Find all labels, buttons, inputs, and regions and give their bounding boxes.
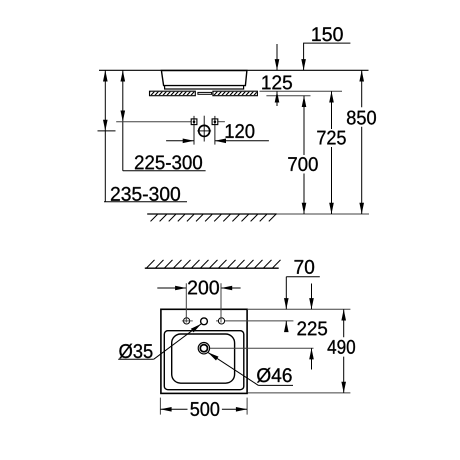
Ø35 leader arrow (191, 324, 201, 333)
floor line extension (277, 213, 369, 215)
label 500 (191, 402, 220, 416)
wall/rim reference line (99, 69, 369, 71)
supply level reference line (116, 121, 191, 123)
dimension 120 left arrow (183, 139, 194, 144)
dimension 200 left line (157, 287, 186, 289)
dimension 725 arrow down (329, 203, 334, 214)
dimension 235-300 vertical line (104, 70, 106, 201)
label Ø35 (119, 344, 152, 359)
dimension 725 line (331, 91, 333, 214)
washbasin foot (165, 86, 244, 89)
dimension 70 lower line (285, 321, 287, 332)
label 120 (226, 124, 255, 138)
label 235-300 underline (104, 201, 187, 203)
label 725 (317, 131, 345, 145)
dimension 500 right extension line (246, 398, 248, 415)
dimension 500 left arrow (160, 407, 171, 412)
dimension 490 arrow down (341, 382, 346, 393)
right supply connection symbol (212, 116, 218, 145)
Ø35 leader line (154, 324, 201, 359)
dimension 725 arrow up (329, 91, 334, 102)
dimension 700 arrow up (302, 96, 307, 107)
label 700 (288, 157, 317, 171)
label 70 underline (286, 276, 320, 278)
label Ø46 underline (258, 384, 293, 386)
left supply connection symbol (191, 116, 197, 145)
dimension 850 arrow down (359, 203, 364, 214)
rear edge extension line (247, 308, 350, 310)
wall hatching (147, 260, 281, 268)
drain centre extension line (210, 347, 314, 349)
Ø46 leader arrow (208, 352, 219, 360)
dimension 225 lower arrow (309, 348, 314, 359)
dimension 225 upper arrow (309, 298, 314, 309)
dimension 235-300 arrow up (103, 70, 108, 81)
basin outer edge (plan view) (161, 309, 247, 393)
countertop top surface extension line (260, 90, 343, 92)
dimension 490 arrow up (341, 309, 346, 320)
countertop bottom surface extension line (266, 95, 310, 97)
dimension 120 left line (166, 140, 194, 142)
label 490 (328, 340, 356, 354)
floor line (147, 213, 277, 215)
floor hatching (151, 214, 276, 221)
dimension 850 arrow up (359, 70, 364, 81)
left optional tap hole (182, 318, 193, 324)
label 200 (188, 280, 219, 294)
dimension 70 lower arrow (284, 321, 289, 332)
wall line (plan view) (145, 267, 279, 269)
dimension 225 upper line (311, 284, 313, 310)
drain hole (plan view) (198, 343, 209, 354)
dimension 150 leader (304, 43, 351, 70)
drain outlet (side view) (197, 116, 211, 142)
dimension 125 lower arrow (275, 91, 280, 102)
dimension 200 right arrow (221, 286, 232, 291)
dimension 490 line (343, 309, 345, 393)
label 235-300 (111, 187, 180, 201)
dimension 150 arrow (301, 59, 306, 70)
middle tap hole (201, 318, 208, 325)
label Ø46 (257, 368, 292, 383)
dimension 125 upper line (276, 44, 278, 70)
label 225-300 underline (123, 170, 206, 172)
dimension 200 left extension line (185, 283, 187, 322)
dimension 70 upper arrow (284, 298, 289, 309)
label 225-300 (135, 155, 202, 169)
dimension 700 line (303, 96, 305, 214)
label 70 (295, 260, 315, 274)
front edge extension line (248, 392, 350, 394)
right optional tap hole (218, 318, 224, 324)
label Ø35 underline (118, 358, 154, 360)
dimension 120 right line (215, 140, 269, 142)
dimension 225-300 vertical line (122, 70, 124, 171)
dimension 125 lower line (276, 91, 278, 106)
dimension 125 upper arrow (275, 59, 280, 70)
dimension 200 left arrow (175, 286, 186, 291)
bowl rim (plan view) (164, 331, 244, 390)
dimension 235-300 arrow down (103, 120, 108, 131)
dimension 225-300 arrow up (121, 70, 126, 81)
drain level tick line (98, 130, 116, 132)
bowl bottom (plan view) (172, 334, 235, 383)
dimension 850 line (361, 70, 363, 214)
supply level right dash (218, 121, 225, 123)
drain flange through countertop (198, 92, 212, 94)
dimension 200 right extension line (220, 283, 222, 322)
dimension 225-300 arrow down (121, 111, 126, 122)
dimension 120 right arrow (215, 139, 226, 144)
label 150 (312, 27, 342, 41)
dimension 500 left extension line (159, 398, 161, 415)
dimension 500 right arrow (236, 407, 247, 412)
label 850 (347, 111, 376, 125)
dimension 70 upper line (285, 277, 287, 310)
dimension 500 line (160, 408, 247, 410)
dimension 225 lower line (311, 348, 313, 369)
dimension 700 arrow down (302, 203, 307, 214)
dimension 200 right line (221, 287, 241, 289)
washbasin body (side view) (161, 71, 247, 86)
Ø46 leader line (208, 352, 259, 385)
label 225 (298, 321, 328, 335)
countertop slab left section (hatched) (146, 91, 199, 97)
countertop slab right section (hatched) (209, 91, 262, 97)
tap hole centre line (216, 320, 293, 322)
label 125 (262, 75, 292, 89)
